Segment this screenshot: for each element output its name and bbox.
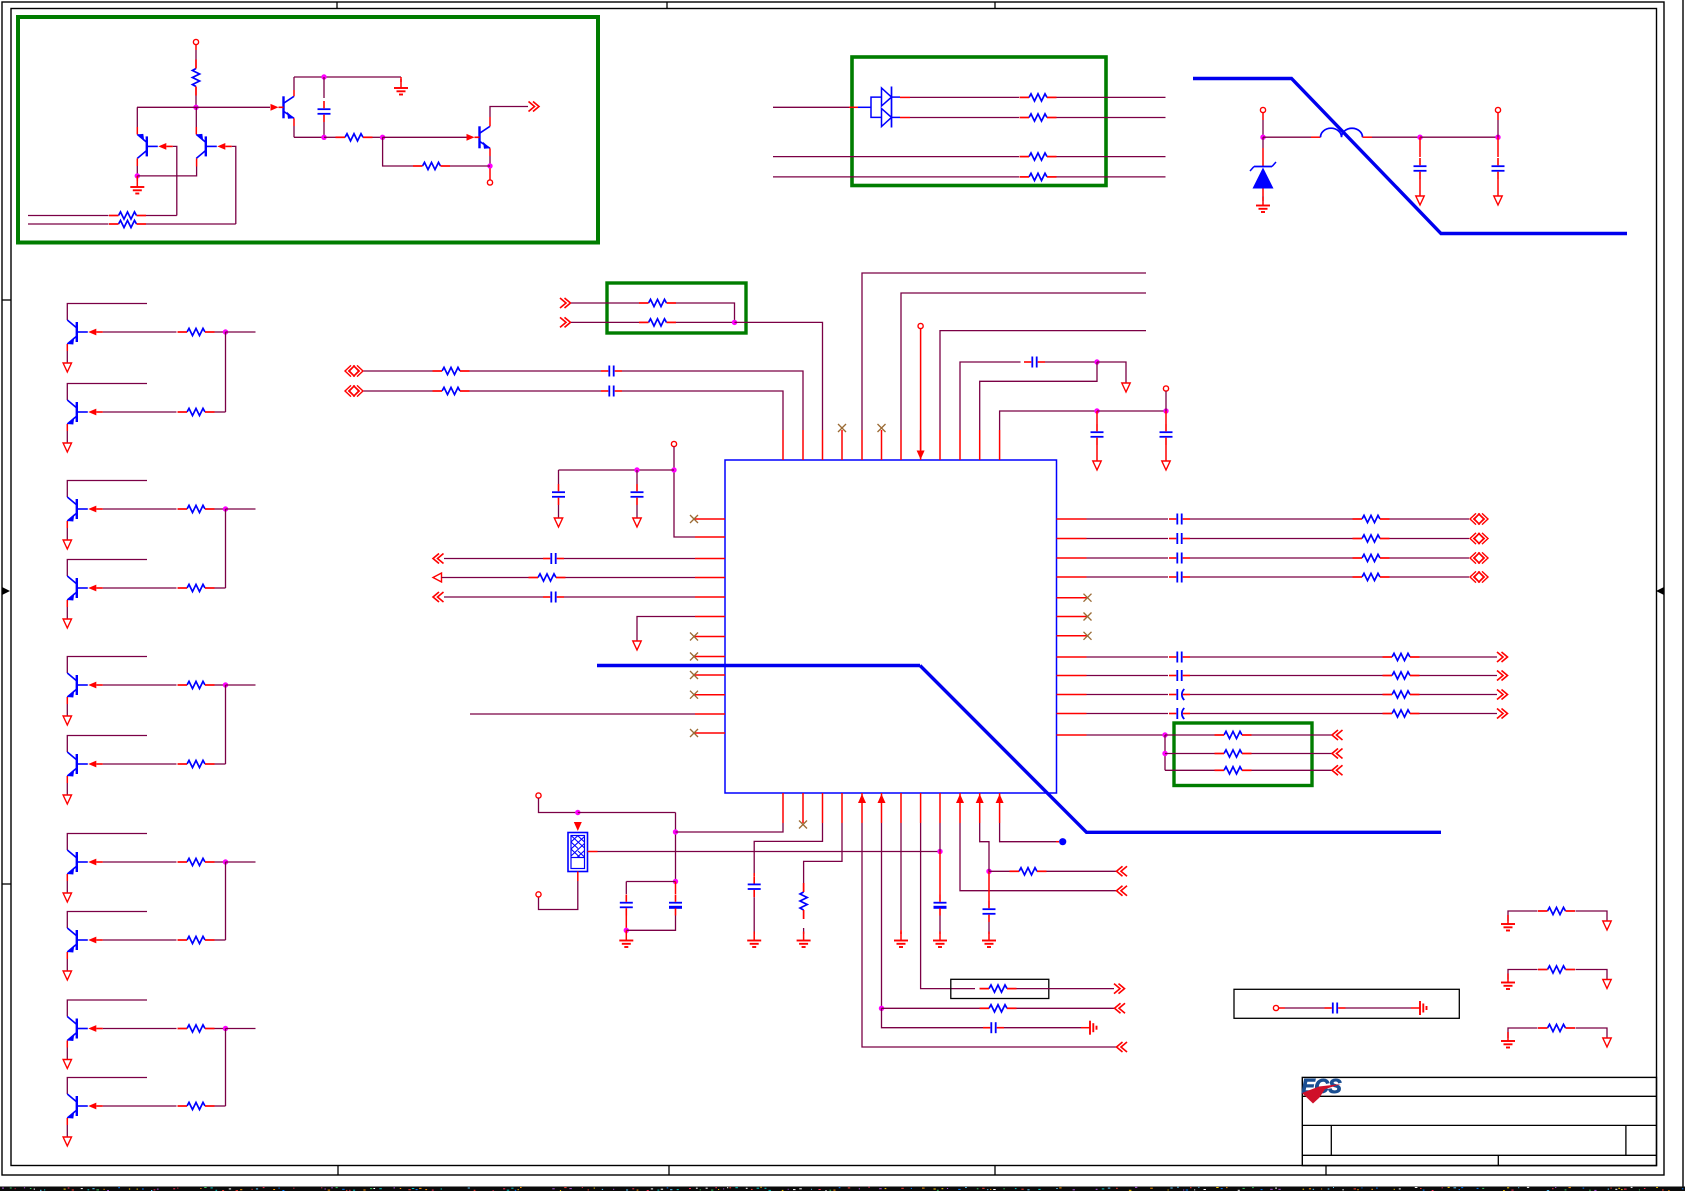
green highlight box 2	[852, 57, 1106, 186]
open terminal circle	[1163, 386, 1168, 391]
node junction	[223, 1026, 228, 1031]
node junction	[380, 135, 385, 140]
wire	[676, 321, 735, 323]
capacitor C19	[1176, 689, 1178, 700]
wire emitter Q9	[66, 697, 68, 704]
wire	[1165, 734, 1215, 736]
green highlight box 3	[607, 283, 746, 333]
resistor R14	[187, 681, 205, 688]
wire	[1576, 1028, 1608, 1038]
capacitor C5	[608, 386, 610, 397]
wire	[1262, 189, 1264, 197]
ground	[1507, 974, 1509, 983]
wire	[442, 577, 529, 579]
wire collector net Q13	[67, 1000, 147, 1017]
node junction	[135, 173, 140, 178]
wire	[1346, 1007, 1412, 1009]
resistor R2	[345, 134, 363, 141]
wire	[1165, 753, 1215, 755]
wire	[1508, 1028, 1538, 1038]
node junction	[321, 74, 326, 79]
capacitor C27	[1332, 1003, 1334, 1014]
thick blue bus line into chip	[597, 664, 920, 667]
wire Q1 base	[173, 146, 177, 215]
wire	[881, 823, 883, 1008]
wire emitter Q8	[66, 600, 68, 607]
node junction	[937, 849, 942, 854]
wire Q3 emitter	[293, 118, 295, 126]
wire	[1252, 734, 1333, 736]
resistor R25	[1362, 515, 1380, 522]
capacitor C3 (vertical)	[1497, 137, 1499, 157]
power arrow	[63, 443, 71, 452]
wire	[215, 331, 226, 333]
thick blue bus polyline upper	[1193, 79, 1627, 234]
pin arrow (output) bottom pin	[878, 794, 886, 803]
power arrow	[636, 505, 638, 518]
wire	[773, 176, 1019, 178]
wire base Q13	[103, 1028, 177, 1030]
wire base Q11	[103, 861, 177, 863]
node junction	[1162, 732, 1167, 737]
wire	[215, 1105, 226, 1107]
wire	[1087, 713, 1169, 715]
ground	[803, 928, 805, 934]
wire	[1057, 176, 1166, 178]
wire	[324, 136, 336, 138]
frame centre arrow right	[1656, 587, 1664, 595]
power arrow	[63, 619, 71, 628]
wire	[364, 390, 433, 392]
transistor Q7	[76, 499, 78, 519]
power arrow	[1122, 383, 1130, 392]
bidirectional port	[1470, 533, 1476, 544]
transistor Q6	[76, 402, 78, 422]
wire pin 822 to C23	[754, 823, 822, 873]
wire	[1087, 576, 1169, 578]
wire collector net Q12	[67, 912, 147, 929]
bottom screen artifact strip	[0, 1187, 1685, 1191]
resistor R23	[442, 387, 460, 394]
bidirectional port	[1470, 552, 1476, 563]
no-connect X left pin	[690, 691, 698, 699]
wire	[1576, 970, 1608, 980]
capacitor C12 (vertical)	[1165, 411, 1167, 424]
power arrow	[63, 1060, 71, 1069]
pin arrow (output) bottom pin	[956, 794, 964, 803]
wire	[1497, 113, 1499, 120]
resistor R4	[28, 215, 109, 217]
wire emitter Q7	[66, 521, 68, 528]
no-connect X right pin	[1084, 613, 1092, 621]
wire	[921, 823, 975, 989]
ground	[939, 916, 941, 935]
capacitor C21 (vertical)	[625, 882, 627, 895]
wire	[882, 1008, 984, 1027]
wire collector net Q10	[67, 736, 147, 753]
wire emitter Q5	[66, 344, 68, 351]
capacitor C9	[550, 592, 552, 603]
wire Q4 collector	[489, 117, 491, 126]
ground	[400, 77, 402, 82]
power arrow	[558, 505, 560, 518]
wire diode input	[773, 106, 849, 108]
input port chevron	[1332, 730, 1338, 740]
wire	[1252, 753, 1333, 755]
capacitor C1 (vertical)	[323, 77, 325, 98]
resistor R39	[1019, 868, 1037, 875]
wire	[988, 861, 990, 871]
wire	[226, 861, 256, 863]
wire	[1087, 694, 1169, 696]
wire	[564, 558, 695, 560]
inductor L1	[1321, 128, 1363, 137]
wire	[444, 596, 543, 598]
wire	[226, 1028, 256, 1030]
no-connect X bottom pin	[799, 821, 807, 829]
frame centre arrow left	[2, 587, 10, 595]
input port chevron	[1117, 1042, 1123, 1052]
capacitor C8	[550, 553, 552, 564]
capacitor C13	[1176, 514, 1178, 525]
resistor R38	[989, 985, 1007, 992]
ground	[753, 897, 755, 934]
node junction	[1163, 408, 1168, 413]
wire Q4 emitter	[489, 148, 491, 156]
wire	[1508, 911, 1538, 921]
resistor R13	[187, 584, 205, 591]
wire	[1164, 735, 1166, 770]
wire	[566, 577, 696, 579]
component box around C27	[1234, 989, 1459, 1018]
node junction	[321, 135, 326, 140]
power terminal circle	[1260, 107, 1265, 112]
no-connect X left pin	[690, 671, 698, 679]
no-connect X right pin	[1084, 632, 1092, 640]
resistor R28	[1362, 573, 1380, 580]
no-connect X left pin	[690, 729, 698, 737]
wire	[225, 685, 227, 764]
wire	[1190, 538, 1353, 540]
resistor R17	[187, 936, 205, 943]
resistor R1 (vertical)	[192, 69, 199, 87]
wire	[1420, 656, 1498, 658]
resistor R15	[187, 760, 205, 767]
wire base Q14	[103, 1105, 177, 1107]
wire	[1165, 769, 1215, 771]
component box around R38	[951, 979, 1049, 998]
node junction	[223, 859, 228, 864]
wire	[980, 362, 1097, 430]
transistor Q5	[76, 322, 78, 342]
wire	[900, 96, 910, 98]
green highlight box 4	[1174, 723, 1312, 786]
node junction	[223, 682, 228, 687]
wire crystal bottom lead	[577, 872, 579, 882]
wire collector net Q7	[67, 481, 147, 498]
wire	[1000, 823, 1056, 842]
pin arrow (output) bottom pin	[858, 794, 866, 803]
wire	[539, 798, 578, 812]
wire	[1190, 713, 1383, 715]
wire	[1000, 411, 1097, 430]
node junction	[1260, 135, 1265, 140]
input port chevron	[1332, 765, 1338, 775]
capacitor C14	[1176, 533, 1178, 544]
wire	[571, 302, 639, 304]
wire	[215, 861, 226, 863]
ground (sideways)	[1081, 1027, 1090, 1029]
capacitor C26 (vertical)	[988, 871, 990, 901]
frame tick left y=300	[2, 299, 11, 301]
node junction	[223, 506, 228, 511]
no-connect X left pin	[690, 515, 698, 523]
output port chevron	[1497, 652, 1503, 662]
open terminal circle	[487, 180, 492, 185]
power arrow	[63, 540, 71, 549]
resistor R19	[187, 1102, 205, 1109]
resistor R5	[28, 223, 109, 225]
resistor R22	[442, 367, 460, 374]
wire	[373, 136, 383, 138]
node junction	[671, 467, 676, 472]
wire	[900, 117, 910, 119]
wire	[676, 303, 735, 322]
wire	[444, 558, 543, 560]
wire emitter Q12	[66, 952, 68, 959]
wire	[1087, 675, 1169, 677]
resistor R27	[1362, 554, 1380, 561]
node junction	[1162, 751, 1167, 756]
resistor R34	[1224, 750, 1242, 757]
frame tick bottom x=669	[668, 1166, 670, 1176]
resistor R20	[649, 299, 667, 306]
title block row line	[1302, 1095, 1656, 1097]
frame tick bottom x=1326	[1325, 1166, 1327, 1176]
node junction	[879, 1006, 884, 1011]
wire	[450, 165, 490, 167]
resistor R6	[1029, 94, 1047, 101]
title block row line	[1302, 1124, 1656, 1126]
transistor Q3	[282, 96, 284, 118]
ground	[900, 930, 902, 934]
wire	[1420, 713, 1498, 715]
node junction	[1417, 135, 1422, 140]
wire	[1190, 576, 1353, 578]
wire	[900, 823, 902, 930]
transistor Q11	[76, 852, 78, 872]
open terminal circle	[918, 323, 923, 328]
wire collector net Q8	[67, 560, 147, 577]
wire	[470, 713, 695, 715]
wire	[215, 587, 226, 589]
wire	[364, 370, 433, 372]
IC bottom pins	[782, 793, 784, 823]
power terminal circle	[1495, 107, 1500, 112]
wire	[470, 370, 602, 372]
input port chevron	[560, 298, 566, 308]
wire	[1057, 156, 1166, 158]
transistor Q13	[76, 1019, 78, 1039]
resistor R29	[1392, 653, 1410, 660]
pin arrow (output) bottom pin	[976, 794, 984, 803]
wire	[137, 106, 196, 108]
open terminal circle	[536, 793, 541, 798]
bidirectional port	[1470, 571, 1476, 582]
wire	[882, 1007, 980, 1009]
node junction	[1094, 408, 1099, 413]
wire	[1017, 988, 1115, 990]
ground	[1262, 197, 1264, 206]
resistor R41	[1548, 966, 1566, 973]
resistor R18	[187, 1025, 205, 1032]
resistor R36 (vertical)	[800, 892, 807, 910]
wire	[1263, 136, 1311, 138]
wire	[622, 391, 783, 430]
wire	[564, 596, 695, 598]
wire	[1363, 136, 1373, 138]
resistor R42	[1548, 1024, 1566, 1031]
wire collector net Q5	[67, 304, 147, 321]
capacitor C22 (vertical)	[675, 882, 677, 895]
power arrow	[63, 1137, 71, 1146]
wire collector net Q14	[67, 1078, 147, 1095]
transistor Q12	[76, 930, 78, 950]
title block outline	[1302, 1077, 1656, 1165]
capacitor C25 (vertical)	[939, 852, 941, 895]
capacitor C17	[1176, 652, 1178, 663]
input port chevron	[560, 317, 566, 327]
output port chevron	[1497, 709, 1503, 719]
wire	[1097, 410, 1166, 412]
frame tick bottom x=338	[337, 1166, 339, 1176]
wire	[1165, 391, 1167, 411]
input port chevron	[1115, 1003, 1121, 1013]
wire Q2 emitter	[196, 158, 198, 166]
wire	[226, 684, 256, 686]
wire	[622, 371, 803, 430]
wire	[215, 1028, 226, 1030]
no-connect X left pin	[690, 633, 698, 641]
wire pin 842 to R36	[804, 823, 842, 883]
power arrow	[1165, 445, 1167, 461]
wire	[1390, 538, 1470, 540]
wire	[578, 812, 676, 814]
wire collector net Q6	[67, 384, 147, 401]
wire collector net Q11	[67, 834, 147, 851]
wire	[470, 390, 602, 392]
ground	[1507, 1032, 1509, 1041]
resistor R33	[1224, 731, 1242, 738]
frame tick left y=884	[2, 883, 11, 885]
wire base Q12	[103, 939, 177, 941]
frame tick top x=995	[994, 2, 996, 9]
transistor Q2	[205, 136, 207, 156]
input port chevron	[1117, 886, 1123, 896]
wire	[1508, 970, 1538, 980]
wire base Q9	[103, 684, 177, 686]
open terminal circle	[1273, 1005, 1278, 1010]
wire	[626, 881, 675, 883]
power arrow	[63, 716, 71, 725]
wire	[215, 411, 226, 413]
resistor R32	[1392, 710, 1410, 717]
wire	[225, 509, 227, 588]
wire base Q6	[103, 411, 177, 413]
wire	[225, 862, 227, 940]
capacitor C2 (vertical)	[1419, 137, 1421, 157]
capacitor C7 (vertical)	[636, 470, 638, 484]
wire	[1087, 656, 1169, 658]
wire	[1420, 136, 1498, 138]
bidirectional port	[345, 365, 351, 376]
output port arrow	[433, 573, 442, 582]
wire	[675, 813, 677, 882]
wire	[215, 508, 226, 510]
wire emitter Q6	[66, 424, 68, 431]
IC U1 body	[725, 460, 1057, 793]
wire	[1057, 117, 1166, 119]
title block row line	[1302, 1154, 1656, 1156]
power arrow	[63, 795, 71, 804]
wire	[137, 167, 196, 176]
output port chevron	[1497, 671, 1503, 681]
IC left pins	[695, 518, 725, 520]
node junction	[1094, 359, 1099, 364]
wire	[195, 45, 197, 50]
node junction	[634, 467, 639, 472]
node junction	[223, 329, 228, 334]
capacitor C24	[990, 1022, 992, 1033]
power arrow	[63, 971, 71, 980]
wire	[1057, 96, 1166, 98]
wire Q2 base	[232, 146, 236, 224]
capacitor C10	[1031, 357, 1033, 368]
IC top pins	[782, 430, 784, 460]
wire	[735, 322, 823, 430]
ground (sideways)	[1411, 1007, 1420, 1009]
power arrow	[63, 893, 71, 902]
wire	[1252, 769, 1333, 771]
resistor R26	[1362, 535, 1380, 542]
power arrow	[1497, 179, 1499, 196]
zener diode D2	[1262, 137, 1264, 148]
wire	[939, 823, 941, 852]
wire	[1420, 694, 1498, 696]
power arrow	[633, 641, 641, 650]
frame tick bottom x=995	[994, 1166, 996, 1176]
wire	[226, 331, 256, 333]
wire	[901, 293, 1146, 430]
wire	[862, 273, 1146, 430]
power arrow	[1603, 980, 1611, 989]
wire	[1390, 557, 1470, 559]
wire	[1017, 1007, 1115, 1009]
wire	[989, 870, 1010, 872]
no-connect X top pin	[878, 424, 886, 432]
wire	[1190, 518, 1353, 520]
resistor R40	[1548, 907, 1566, 914]
input port chevron	[1117, 866, 1123, 876]
wire emitter Q10	[66, 776, 68, 783]
title block divider	[1330, 1125, 1332, 1155]
wire	[1190, 656, 1383, 658]
thick blue bus diagonal	[920, 666, 1441, 833]
output port chevron	[1114, 984, 1120, 994]
wire	[225, 332, 227, 412]
transistor Q9	[76, 675, 78, 695]
resistor R11	[187, 408, 205, 415]
